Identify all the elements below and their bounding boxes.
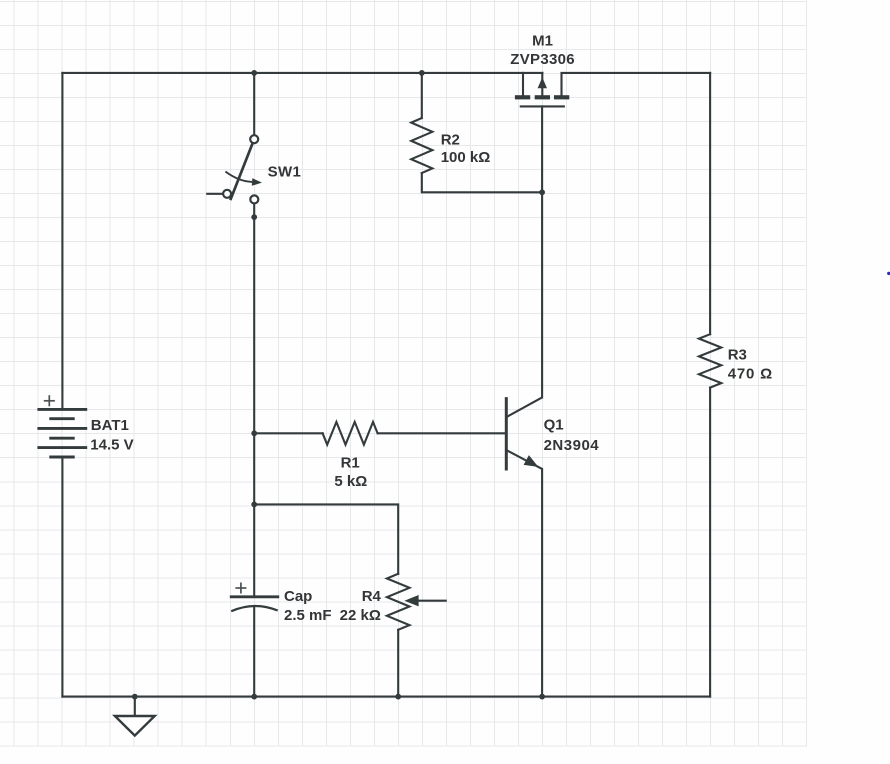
node gate/R2/collector: [539, 189, 545, 195]
transistor Q1 emitter arrow: [524, 455, 539, 467]
svg-text:R1: R1: [341, 454, 360, 471]
capacitor Cap plus sign: [235, 583, 246, 594]
wire left rail upper (top rail to BAT1 +): [61, 73, 63, 409]
node ground junction: [132, 694, 138, 700]
svg-text:22 kΩ: 22 kΩ: [340, 607, 381, 624]
wire R2 top lead: [421, 73, 423, 118]
resistor R1 5k zigzag: [323, 422, 378, 445]
transistor Q1 base bar: [505, 397, 508, 470]
wire switch branch upper (top rail to SW1 pin): [253, 73, 255, 135]
node R4 branch tap: [251, 502, 257, 508]
switch SW1 terminal circles: [223, 135, 258, 203]
mosfet M1 channel bars: [515, 95, 569, 99]
node below SW1: [251, 214, 257, 220]
svg-text:100 kΩ: 100 kΩ: [441, 149, 491, 166]
wire Cap bottom lead to bottom rail: [253, 606, 255, 697]
svg-text:BAT1: BAT1: [91, 417, 129, 434]
wire top rail left (battery+ to M1 source): [62, 72, 542, 74]
resistor R2 100k zigzag: [411, 118, 432, 173]
wire R1 left lead: [254, 432, 322, 434]
wire bottom rail (ground net): [62, 696, 710, 698]
wire top rail right (M1 drain to R3 top): [562, 73, 711, 96]
switch SW1 lever and stub: [206, 143, 252, 200]
svg-text:5 kΩ: 5 kΩ: [334, 473, 367, 490]
svg-text:Q1: Q1: [544, 417, 564, 434]
capacitor Cap top plate: [230, 595, 279, 598]
svg-text:ZVP3306: ZVP3306: [510, 51, 575, 68]
svg-text:R2: R2: [441, 131, 460, 148]
svg-text:14.5 V: 14.5 V: [90, 436, 133, 453]
node top rail / switch branch: [251, 70, 257, 76]
node top rail / R2: [419, 70, 425, 76]
svg-text:M1: M1: [532, 32, 553, 49]
wire right rail upper (top rail to R3): [709, 73, 711, 334]
node emitter / bottom rail: [539, 694, 545, 700]
transistor Q1 emitter diagonal: [507, 450, 542, 468]
wire R4 bottom lead to bottom rail: [397, 630, 399, 697]
wire M1 gate to Q1 collector: [541, 106, 543, 397]
node Cap / bottom rail: [251, 694, 257, 700]
wire Q1 emitter to bottom rail: [541, 469, 543, 697]
node R1 tap: [251, 430, 257, 436]
potentiometer R4 wiper arrow: [404, 595, 446, 606]
wire R4 branch (tap to R4 top): [254, 504, 398, 573]
switch SW1 actuation arc with arrow: [225, 172, 252, 182]
resistor R3 470 zigzag: [699, 334, 721, 387]
transistor Q1 collector diagonal: [507, 397, 542, 417]
ground symbol: [115, 697, 155, 736]
wire R2 bottom lead to gate node: [422, 173, 542, 192]
wire left rail lower (BAT1 - to bottom rail): [61, 457, 63, 696]
wire R1 right lead to Q1 base: [378, 432, 507, 434]
wire switch branch lower (SW1 to Cap, through R1 and R4 taps): [253, 204, 255, 597]
wire right rail lower (R3 to bottom rail): [709, 388, 711, 697]
svg-text:2.5 mF: 2.5 mF: [284, 607, 332, 624]
potentiometer R4 22k zigzag: [387, 574, 410, 630]
battery BAT1 plus sign: [44, 395, 55, 406]
node R4 / bottom rail: [395, 694, 401, 700]
svg-text:Cap: Cap: [284, 588, 312, 605]
stray blue mark: [887, 272, 890, 275]
svg-text:470 Ω: 470 Ω: [728, 366, 773, 383]
svg-text:SW1: SW1: [268, 164, 302, 181]
mosfet M1 gate plate: [521, 105, 564, 107]
svg-text:2N3904: 2N3904: [544, 437, 600, 454]
capacitor Cap curved bottom plate: [231, 606, 278, 611]
battery BAT1 plates: [37, 409, 87, 457]
svg-text:R4: R4: [362, 588, 382, 605]
mosfet M1 source/drain leads: [521, 73, 564, 107]
svg-text:R3: R3: [728, 347, 747, 364]
mosfet M1 body arrow (points up): [538, 77, 547, 88]
